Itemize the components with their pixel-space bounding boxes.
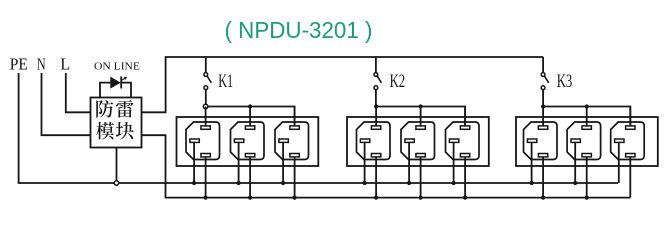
svg-text:K3: K3 xyxy=(557,71,573,92)
wire L bus group 2 xyxy=(376,107,465,126)
outlet 1-1 pin L xyxy=(201,126,210,129)
outlet socket 2-2 xyxy=(401,122,435,160)
wire outlet 2-1 L pin xyxy=(375,107,377,127)
outlet 1-2 pin N xyxy=(245,154,254,157)
wire outlet 1-2 L pin xyxy=(249,107,251,127)
outlet 2-3 pin L xyxy=(460,126,469,129)
wire N out + N bus B xyxy=(142,135,631,197)
wire outlet 2-3 N pin xyxy=(464,156,466,198)
outlet 2-2 pin N xyxy=(416,154,425,157)
outlet socket 1-1 xyxy=(186,122,220,160)
wire outlet 3-3 L pin xyxy=(629,107,631,127)
wire outlet 3-2 L pin xyxy=(586,107,588,127)
wire switch K3 to bus xyxy=(542,90,544,107)
wire L bus group 3 xyxy=(543,107,630,126)
outlet socket 3-3 xyxy=(611,122,645,160)
wire L input to surge module xyxy=(66,73,91,112)
wire switch drop K2 xyxy=(375,57,377,73)
wire outlet 1-1 N pin xyxy=(205,156,207,198)
switch K1 xyxy=(204,73,208,77)
outlet 3-1 pin N xyxy=(538,154,547,157)
wire outlet 2-1 N pin xyxy=(375,156,377,198)
wire outlet 3-3 PE pin xyxy=(618,141,620,183)
junction module-PE xyxy=(114,181,118,185)
junction outlet 2-3 PE-busA xyxy=(452,181,456,185)
wire L out + top L bus xyxy=(142,57,544,112)
junction outlet 2-1 N-busB xyxy=(374,196,378,200)
wire outlet 2-2 L pin xyxy=(420,107,422,127)
junction K2-bus xyxy=(374,104,378,108)
wire N input to surge module xyxy=(42,73,91,135)
outlet 1-2 pin PE xyxy=(234,139,243,142)
svg-text:L: L xyxy=(60,54,70,73)
svg-text:K2: K2 xyxy=(390,71,406,92)
junction outlet 1-1 PE-busA xyxy=(192,181,196,185)
junction outlet 2-2 PE-busA xyxy=(407,181,411,185)
junction K3-bus xyxy=(541,104,545,108)
outlet 3-3 pin N xyxy=(626,154,635,157)
outlet socket 2-1 xyxy=(357,122,391,160)
wire surge module to PE bus xyxy=(116,148,118,184)
wire outlet 1-3 N pin xyxy=(294,156,296,198)
surge module box 防雷模块 xyxy=(91,98,142,148)
wire outlet 1-2 N pin xyxy=(249,156,251,198)
svg-text:K1: K1 xyxy=(218,71,233,92)
junction outlet 3-2 N-busB xyxy=(585,196,589,200)
junction outlet 1-2 N-busB xyxy=(248,196,252,200)
outlet 2-1 pin N xyxy=(371,154,380,157)
svg-text:PE: PE xyxy=(10,54,28,73)
wire outlet 2-1 PE pin xyxy=(364,141,366,183)
outlet socket 2-3 xyxy=(446,122,480,160)
outlet 1-1 pin PE xyxy=(190,139,199,142)
outlet 2-2 pin PE xyxy=(405,139,414,142)
outlet 3-2 pin L xyxy=(582,126,591,129)
wire outlet 1-1 PE pin xyxy=(193,141,195,183)
wire outlet 2-2 PE pin xyxy=(408,141,410,183)
outlet group box 1 xyxy=(177,117,319,166)
outlet 3-2 pin PE xyxy=(571,139,580,142)
junction outlet 1-2 PE-busA xyxy=(237,181,241,185)
wire outlet 2-3 PE pin xyxy=(453,141,455,183)
outlet 1-2 pin L xyxy=(245,126,254,129)
wire outlet 3-1 N pin xyxy=(542,156,544,198)
outlet group box 3 xyxy=(516,117,658,166)
outlet 2-3 pin N xyxy=(460,154,469,157)
svg-text:N: N xyxy=(37,54,46,73)
junction K1-bus xyxy=(203,104,208,109)
text char 模 xyxy=(96,122,114,140)
wire PE input + PE bus A xyxy=(19,73,618,183)
outlet 3-3 pin PE xyxy=(615,139,624,142)
outlet 2-1 pin PE xyxy=(360,139,369,142)
junction outlet 1-3 PE-busA xyxy=(281,181,285,185)
junction L bus outlet mid group 3 xyxy=(585,104,589,108)
outlet group box 2 xyxy=(347,117,489,166)
outlet socket 1-3 xyxy=(275,122,309,160)
wire outlet 3-2 PE pin xyxy=(574,141,576,183)
wire outlet 1-1 L pin xyxy=(205,107,207,127)
junction outlet 1-3 N-busB xyxy=(293,196,297,200)
outlet 1-3 pin L xyxy=(290,126,299,129)
outlet 1-1 pin N xyxy=(201,154,210,157)
wire switch K1 to bus xyxy=(205,90,207,107)
junction outlet 2-1 PE-busA xyxy=(363,181,367,185)
outlet socket 1-2 xyxy=(231,122,265,160)
wire L bus group 1 xyxy=(206,107,295,126)
junction outlet 2-3 N-busB xyxy=(463,196,467,200)
junction outlet 3-1 PE-busA xyxy=(530,181,534,185)
wire switch drop K1 xyxy=(205,57,207,73)
text char 雷 xyxy=(116,100,134,118)
switch K2 xyxy=(374,73,378,77)
outlet 3-1 pin L xyxy=(538,126,547,129)
junction outlet 3-2 PE-busA xyxy=(573,181,577,185)
outlet 1-3 pin PE xyxy=(279,139,288,142)
switch K3 xyxy=(541,73,545,77)
text char 防 xyxy=(96,100,113,118)
text char 块 xyxy=(116,122,134,140)
junction outlet 3-1 N-busB xyxy=(541,196,545,200)
LED diode ON LINE xyxy=(111,77,120,88)
outlet 2-2 pin L xyxy=(416,126,425,129)
wire outlet 3-2 N pin xyxy=(586,156,588,198)
outlet 3-3 pin L xyxy=(626,126,635,129)
wire switch K2 to bus xyxy=(375,90,377,107)
outlet 2-3 pin PE xyxy=(449,139,458,142)
outlet 2-1 pin L xyxy=(371,126,380,129)
svg-text:( NPDU-3201 ): ( NPDU-3201 ) xyxy=(225,17,373,43)
outlet 3-2 pin N xyxy=(582,154,591,157)
wire LED bracket left xyxy=(100,83,111,98)
outlet 1-3 pin N xyxy=(290,154,299,157)
wire outlet 2-3 L pin xyxy=(464,107,466,127)
wire outlet 2-2 N pin xyxy=(420,156,422,198)
LED arrow xyxy=(122,78,125,80)
junction L bus outlet mid group 2 xyxy=(419,104,423,108)
wire LED bracket right xyxy=(121,83,131,98)
outlet socket 3-1 xyxy=(524,122,558,160)
wire outlet 1-2 PE pin xyxy=(238,141,240,183)
wire outlet 1-3 PE pin xyxy=(282,141,284,183)
wire outlet 3-3 N pin xyxy=(629,156,631,198)
wire outlet 3-1 L pin xyxy=(542,107,544,127)
junction L bus outlet mid group 1 xyxy=(248,104,252,108)
outlet 3-1 pin PE xyxy=(527,139,536,142)
junction outlet 1-1 N-busB xyxy=(204,196,208,200)
wire switch drop K3 xyxy=(542,57,544,73)
outlet socket 3-2 xyxy=(567,122,601,160)
wire outlet 3-1 PE pin xyxy=(531,141,533,183)
svg-text:ON LINE: ON LINE xyxy=(94,61,140,72)
junction outlet 2-2 N-busB xyxy=(419,196,423,200)
wire outlet 1-3 L pin xyxy=(294,107,296,127)
